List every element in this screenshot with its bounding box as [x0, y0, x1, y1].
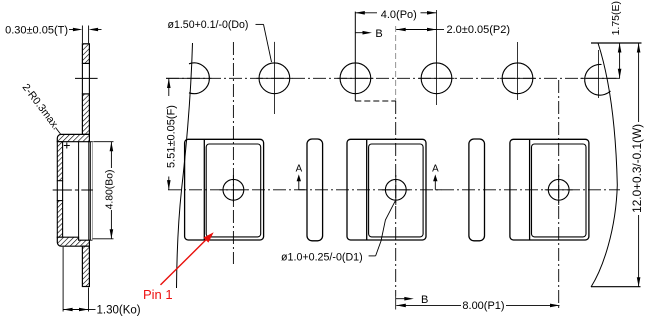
- dimension P2 2.0±0.05: [396, 24, 510, 36]
- right break curve: [591, 43, 617, 287]
- section B markers: [355, 28, 428, 306]
- svg-text:0.30±0.05(T): 0.30±0.05(T): [5, 24, 68, 36]
- strip segment below sprocket hole: [82, 94, 89, 134]
- svg-text:B: B: [421, 294, 428, 306]
- pocket 3: [510, 139, 589, 240]
- Pin 1 red marker: [143, 232, 214, 301]
- tape bottom edge: [591, 286, 641, 288]
- sprocket hole 1 (cut by break): [189, 63, 209, 94]
- svg-text:1.75(E): 1.75(E): [610, 1, 622, 35]
- sprocket row centerline: [166, 77, 623, 79]
- svg-text:2.0±0.05(P2): 2.0±0.05(P2): [447, 24, 511, 36]
- svg-text:4.0(Po): 4.0(Po): [381, 9, 417, 21]
- dimension Bo 4.80: [93, 142, 116, 239]
- svg-text:B: B: [375, 28, 382, 40]
- cavity top surface line: [89, 141, 93, 143]
- sprocket hole 5: [502, 63, 533, 94]
- pocket top wall hatched band: [57, 134, 89, 141]
- pocket opening line 3: [91, 142, 93, 241]
- strip upper segment hatched: [82, 44, 89, 64]
- sprocket hole 3: [340, 63, 371, 94]
- separator pocket 1: [307, 139, 323, 241]
- section centerline: [53, 189, 93, 191]
- left break curve: [177, 43, 193, 288]
- section line B-B: [354, 12, 356, 101]
- cavity bottom lip line: [89, 239, 92, 241]
- label 2-R0.3max.: [20, 82, 62, 134]
- svg-text:5.51±0.05(F): 5.51±0.05(F): [166, 105, 178, 168]
- pocket left wall upper hatched: [57, 142, 62, 181]
- svg-text:4.80(Bo): 4.80(Bo): [105, 170, 116, 210]
- label Do sprocket hole dia: [168, 19, 272, 62]
- svg-text:Pin 1: Pin 1: [143, 287, 173, 302]
- pocket row centerline: [168, 189, 620, 191]
- svg-text:1.30(Ko): 1.30(Ko): [97, 304, 141, 316]
- sprocket hole centerline tick: [75, 77, 98, 79]
- cavity inner wall line: [78, 142, 80, 238]
- svg-text:A: A: [432, 164, 439, 175]
- svg-text:A: A: [296, 164, 303, 175]
- svg-text:8.00(P1): 8.00(P1): [462, 300, 504, 312]
- strip lower segment hatched: [82, 246, 89, 286]
- dimension F 5.51±0.05: [166, 78, 178, 190]
- dimension P1 8.00: [396, 300, 559, 312]
- dimension Po 4.0: [355, 9, 436, 21]
- section A-A markers: [296, 164, 442, 190]
- pocket left wall lower hatched: [57, 201, 62, 238]
- svg-text:ø1.50+0.1/-0(Do): ø1.50+0.1/-0(Do): [168, 19, 249, 31]
- dimension E 1.75: [610, 1, 622, 78]
- centerline solid overlays: [166, 77, 211, 79]
- pocket bottom wall hatched band: [57, 237, 89, 246]
- pocket 2: [347, 139, 426, 240]
- dimension W 12.0+0.3/-0.1: [630, 43, 644, 287]
- pocket opening line 1: [88, 142, 90, 241]
- tape top edge: [591, 42, 642, 44]
- dimension Ko 1.30: [63, 247, 141, 316]
- label D1 pocket hole dia: [281, 201, 395, 263]
- strip verticals through hole gap: [81, 63, 83, 94]
- pocket 1 centerline: [232, 42, 234, 264]
- orientation cross mark: [64, 145, 70, 147]
- pocket 1: [185, 139, 264, 240]
- pocket opening line 2: [89, 142, 91, 241]
- dimension T 0.30±0.05: [5, 24, 101, 43]
- sprocket hole 4: [421, 63, 452, 94]
- sprocket hole 6 (cut by break): [585, 64, 611, 95]
- pocket 3 centerline: [558, 80, 560, 310]
- svg-text:12.0+0.3/-0.1(W): 12.0+0.3/-0.1(W): [630, 124, 644, 213]
- svg-text:ø1.0+0.25/-0(D1): ø1.0+0.25/-0(D1): [281, 251, 363, 263]
- sprocket hole 2: [259, 63, 290, 94]
- separator pocket 2: [469, 139, 485, 241]
